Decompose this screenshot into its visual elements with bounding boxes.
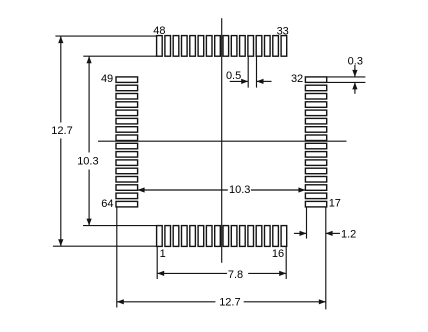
svg-text:32: 32 bbox=[291, 73, 303, 85]
dimension label 10.3 (horizontal) bbox=[229, 184, 250, 196]
dimension 0.5 pad pitch: extension line left bbox=[247, 56, 249, 87]
dimension label 12.7 (left vertical) bbox=[51, 125, 72, 137]
dimension 0.5 pad pitch: arrows pointing inward bbox=[230, 79, 272, 84]
bottom pad row (pins 1..16) bbox=[157, 226, 287, 247]
left pad column (pins 49..64) bbox=[116, 77, 138, 207]
svg-text:1: 1 bbox=[160, 248, 166, 260]
dimension label 1.2 bbox=[341, 228, 356, 240]
dimension 7.8 bottom row span: extension line right bbox=[285, 246, 287, 279]
dimension 12.7 overall horizontal: extension line right bbox=[325, 207, 327, 310]
dimension 7.8 bottom row span: extension line left bbox=[156, 246, 158, 279]
dimension 12.7 overall vertical: dimension line with arrows bbox=[58, 36, 63, 246]
pin label 33 bbox=[277, 25, 289, 37]
dimension label 12.7 (bottom) bbox=[219, 296, 240, 308]
dimension label 0.3 bbox=[348, 55, 363, 67]
center horizontal axis line bbox=[98, 140, 347, 142]
svg-text:48: 48 bbox=[153, 25, 165, 37]
dimension 10.3 inner horizontal: dimension line with arrows bbox=[138, 187, 306, 192]
dimension 10.3 inner vertical: extension line top bbox=[83, 55, 156, 57]
svg-text:0.5: 0.5 bbox=[226, 70, 241, 82]
svg-text:12.7: 12.7 bbox=[219, 296, 240, 308]
svg-text:64: 64 bbox=[101, 198, 113, 210]
dimension label 0.5 bbox=[226, 70, 241, 82]
center vertical axis line bbox=[221, 18, 223, 262]
svg-text:33: 33 bbox=[277, 25, 289, 37]
dimension label 7.8 bbox=[228, 269, 243, 281]
pin label 64 bbox=[101, 198, 113, 210]
svg-text:49: 49 bbox=[101, 73, 113, 85]
svg-text:16: 16 bbox=[272, 248, 284, 260]
dimension 0.3 pad width: extension line bottom bbox=[327, 81, 366, 83]
pin label 17 bbox=[329, 198, 341, 210]
svg-text:17: 17 bbox=[329, 198, 341, 210]
pin label 1 bbox=[160, 248, 166, 260]
top pad row (pins 48..33) bbox=[157, 36, 287, 57]
dimension 12.7 overall horizontal: dimension line with arrows bbox=[117, 299, 326, 304]
dimension label 10.3 (left vertical) bbox=[77, 156, 98, 168]
dimension 0.5 pad pitch: extension line right bbox=[256, 56, 258, 87]
svg-text:10.3: 10.3 bbox=[229, 184, 250, 196]
dimension 12.7 overall vertical: extension line bottom bbox=[53, 245, 157, 247]
svg-text:12.7: 12.7 bbox=[51, 125, 72, 137]
pin label 48 bbox=[153, 25, 165, 37]
dimension 7.8 bottom row span: dimension line with arrows bbox=[157, 271, 286, 276]
dimension 0.3 pad width: extension line top bbox=[327, 76, 366, 78]
dimension 12.7 overall vertical: extension line top bbox=[55, 35, 156, 37]
right pad column (pins 32..17) bbox=[305, 77, 326, 207]
dimension 12.7 overall horizontal: extension line left bbox=[116, 207, 118, 308]
svg-text:1.2: 1.2 bbox=[341, 228, 356, 240]
dimension 1.2 pad length: extension line left bbox=[306, 207, 308, 239]
dimension 10.3 inner vertical: dimension line with arrows bbox=[87, 56, 92, 225]
dimension 0.3 pad width: arrows pointing inward bbox=[352, 65, 357, 94]
pin label 16 bbox=[272, 248, 284, 260]
dimension 1.2 pad length: arrows pointing inward bbox=[294, 231, 340, 236]
pin label 32 bbox=[291, 73, 303, 85]
svg-text:10.3: 10.3 bbox=[77, 156, 98, 168]
svg-text:0.3: 0.3 bbox=[348, 55, 363, 67]
pin label 49 bbox=[101, 73, 113, 85]
svg-text:7.8: 7.8 bbox=[228, 269, 243, 281]
dimension 10.3 inner vertical: extension line bottom bbox=[83, 225, 157, 227]
